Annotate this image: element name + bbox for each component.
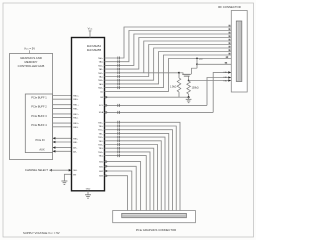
resistor R2 100k — [188, 76, 190, 81]
svg-text:RB1-: RB1- — [73, 108, 78, 110]
svg-text:TA0+: TA0+ — [98, 57, 104, 60]
wire SB2 — [106, 170, 109, 173]
svg-text:38: 38 — [228, 50, 230, 52]
svg-text:TB0-: TB0- — [98, 126, 103, 128]
wire TB7 — [105, 148, 154, 214]
wire node A — [144, 72, 179, 74]
wire TB1 — [105, 126, 177, 214]
svg-text:33: 33 — [228, 32, 230, 34]
svg-text:M1: M1 — [225, 63, 228, 65]
svg-text:TB1-: TB1- — [98, 133, 103, 135]
svg-text:RB2+: RB2+ — [73, 114, 79, 116]
svg-text:TB4-: TB4- — [98, 156, 103, 158]
node VCC (pullup) — [196, 57, 198, 59]
wire SDA — [106, 111, 109, 114]
wire SB3 — [106, 174, 109, 177]
wire CHANNEL SELECT — [49, 169, 52, 172]
wire TB5 — [105, 141, 162, 214]
svg-text:RB1+: RB1+ — [73, 105, 79, 107]
wire TA8 — [105, 55, 232, 88]
resistor R1 1.5k — [178, 73, 180, 78]
svg-text:RBI-: RBI- — [73, 142, 78, 144]
svg-text:RB0-: RB0- — [73, 99, 78, 101]
wire TB3 — [105, 133, 169, 213]
svg-text:CONTROLLER HUB: CONTROLLER HUB — [18, 64, 45, 68]
wire TB9 — [105, 156, 147, 214]
svg-text:TB3+: TB3+ — [98, 145, 104, 147]
wire EN to ground — [64, 174, 71, 181]
svg-text:PCIe GRAPHICS CONNECTOR: PCIe GRAPHICS CONNECTOR — [136, 228, 176, 232]
svg-text:100kΩ: 100kΩ — [192, 87, 199, 90]
svg-text:34: 34 — [228, 36, 230, 38]
svg-text:36: 36 — [228, 43, 230, 45]
wire DET to connector — [105, 59, 232, 92]
wire PCIe IN pair — [53, 137, 72, 139]
GMCH block — [10, 54, 53, 160]
wire TA1 — [105, 31, 232, 62]
svg-text:RBI+: RBI+ — [73, 138, 79, 140]
svg-text:AX-: AX- — [73, 150, 77, 153]
svg-text:GND: GND — [86, 189, 91, 191]
svg-text:PCIe BUFF 3: PCIe BUFF 3 — [31, 114, 47, 118]
svg-text:VCC = 5V: VCC = 5V — [24, 46, 35, 50]
svg-text:TB4+: TB4+ — [98, 152, 104, 154]
wire PCIe BUFF 2 pair — [53, 104, 72, 106]
wire TB6 — [105, 145, 158, 214]
wire TB2 — [105, 130, 173, 214]
op IC U1 MAX4928A/MAX4928B — [72, 38, 105, 191]
wire pullup to connector — [189, 80, 232, 82]
svg-text:1.5kΩ: 1.5kΩ — [170, 86, 177, 89]
svg-text:37: 37 — [228, 46, 230, 48]
svg-text:CD: CD — [100, 91, 104, 93]
svg-text:PCIe BUFF 2: PCIe BUFF 2 — [31, 105, 47, 109]
wire VCC to connector — [197, 63, 231, 65]
wire TA5 — [105, 45, 232, 77]
svg-text:TA3+: TA3+ — [98, 79, 104, 82]
svg-text:TB1+: TB1+ — [98, 130, 104, 132]
svg-text:AX+: AX+ — [73, 147, 78, 150]
wire TB0 — [105, 122, 181, 214]
wire TA0 — [105, 27, 232, 58]
wire VCC to IC — [89, 30, 92, 32]
svg-text:TA1+: TA1+ — [98, 64, 104, 67]
wire SENSE — [106, 96, 109, 99]
svg-text:PCIe BUFF 4: PCIe BUFF 4 — [31, 123, 47, 127]
svg-text:35: 35 — [228, 39, 230, 41]
svg-text:SN: SN — [100, 97, 103, 99]
svg-text:TB2+: TB2+ — [98, 137, 104, 139]
svg-text:MAX4928B: MAX4928B — [87, 48, 101, 52]
wire PCIe BUFF 3 pair — [53, 113, 72, 115]
svg-text:PCIe BUFF 1: PCIe BUFF 1 — [31, 95, 47, 99]
svg-text:SUPPLY VOLTAGE VCC = 5V: SUPPLY VOLTAGE VCC = 5V — [23, 231, 60, 235]
border frame — [3, 3, 254, 237]
svg-text:PCIe IN: PCIe IN — [35, 138, 44, 142]
PCIe graphics connector — [113, 211, 196, 223]
wire TB4 — [105, 137, 166, 214]
svg-text:TA4+: TA4+ — [98, 87, 104, 90]
wire TA6 — [105, 48, 232, 80]
wire PCIe BUFF 4 pair — [53, 122, 72, 124]
ground (IC bottom) — [87, 191, 89, 195]
svg-text:TA2+: TA2+ — [98, 72, 104, 75]
wire TA4 — [105, 41, 232, 73]
svg-text:RB0+: RB0+ — [73, 96, 79, 98]
svg-text:39: 39 — [228, 53, 230, 55]
wire SB1 — [106, 165, 109, 168]
ground (resistors) — [188, 97, 190, 99]
svg-text:TA2-: TA2- — [99, 76, 104, 79]
svg-text:TA1-: TA1- — [99, 68, 104, 71]
svg-text:RB2-: RB2- — [73, 118, 78, 120]
svg-text:TA3-: TA3- — [99, 83, 104, 86]
svg-text:EN: EN — [73, 174, 76, 176]
svg-text:TA0-: TA0- — [99, 61, 104, 64]
wire TA2 — [105, 34, 232, 65]
svg-text:CHANNEL SELECT: CHANNEL SELECT — [25, 168, 49, 172]
svg-text:TB2-: TB2- — [98, 141, 103, 143]
ground (channel select) — [61, 180, 67, 182]
wire TA3 — [105, 38, 232, 70]
svg-text:TB0+: TB0+ — [98, 122, 104, 124]
svg-text:RF CONNECTOR: RF CONNECTOR — [218, 5, 240, 9]
GMCH buffer sub-box — [25, 94, 52, 153]
svg-text:SDA: SDA — [99, 111, 104, 114]
wire TB8 — [105, 152, 151, 214]
wire AUX pair — [53, 147, 72, 149]
wire TA7 — [105, 52, 232, 84]
svg-text:32: 32 — [228, 29, 230, 31]
wire SCL — [106, 104, 109, 107]
svg-text:AUX: AUX — [39, 148, 45, 152]
svg-text:RB3+: RB3+ — [73, 123, 79, 125]
transistor Q1 — [179, 73, 183, 75]
svg-text:31: 31 — [228, 25, 230, 27]
svg-text:TB3-: TB3- — [98, 148, 103, 150]
svg-text:RB3-: RB3- — [73, 127, 78, 129]
wire SB0 — [106, 160, 109, 163]
wire PCIe BUFF 1 pair — [53, 95, 72, 97]
wire resistor bottoms — [179, 96, 189, 98]
